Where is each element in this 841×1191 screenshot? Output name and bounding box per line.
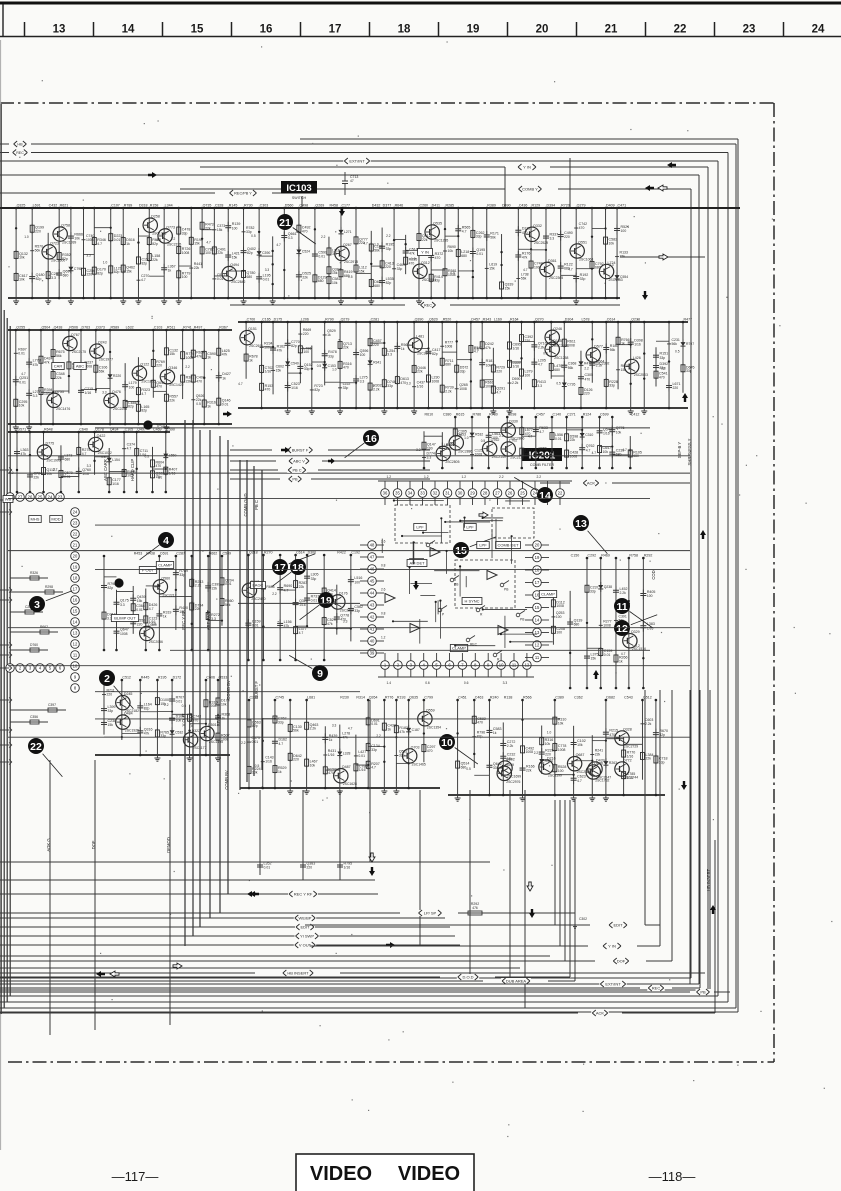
top row column 2	[24, 204, 44, 300]
svg-text:Q255: Q255	[16, 326, 25, 330]
svg-text:29: 29	[470, 491, 475, 496]
svg-text:Q773: Q773	[166, 225, 175, 229]
svg-text:L702: L702	[509, 439, 517, 443]
svg-text:PB C: PB C	[292, 468, 301, 473]
svg-text:56k: 56k	[490, 236, 496, 240]
svg-text:33p: 33p	[179, 573, 185, 577]
svg-text:0.5: 0.5	[466, 767, 471, 771]
svg-text:10k: 10k	[221, 702, 227, 706]
svg-text:C231: C231	[672, 338, 680, 342]
svg-text:C742: C742	[579, 222, 587, 226]
IC201 bottom pin row	[378, 653, 534, 685]
svg-text:100: 100	[205, 251, 211, 255]
svg-text:100: 100	[303, 350, 309, 354]
svg-text:ACK: ACK	[596, 1011, 605, 1016]
svg-text:2SC2729: 2SC2729	[624, 745, 638, 749]
center bottom block column 9	[356, 696, 380, 790]
svg-text:0.01: 0.01	[176, 700, 183, 704]
svg-text:R789: R789	[124, 204, 133, 208]
svg-text:470: 470	[659, 375, 665, 379]
callout 9	[289, 655, 328, 681]
svg-text:33p: 33p	[278, 720, 284, 724]
svg-text:2.2k: 2.2k	[310, 727, 317, 731]
wire BURST F	[230, 447, 430, 453]
svg-text:22k: 22k	[194, 266, 200, 270]
svg-text:C606: C606	[206, 676, 215, 680]
boxed label MHS	[29, 516, 41, 523]
svg-text:47k: 47k	[196, 354, 202, 358]
svg-text:220: 220	[584, 392, 590, 396]
svg-text:Q312: Q312	[421, 261, 430, 265]
svg-text:R730: R730	[244, 204, 253, 208]
svg-text:16: 16	[260, 24, 273, 36]
svg-text:21: 21	[73, 543, 78, 548]
svg-text:100: 100	[360, 353, 366, 357]
svg-text:1k: 1k	[493, 731, 497, 735]
svg-text:42: 42	[370, 615, 375, 620]
svg-text:R621: R621	[60, 204, 69, 208]
svg-text:3.3: 3.3	[288, 236, 293, 240]
svg-text:56k: 56k	[610, 348, 616, 352]
svg-text:220: 220	[156, 364, 162, 368]
svg-text:Q176: Q176	[339, 591, 348, 595]
svg-text:D457: D457	[471, 318, 480, 322]
svg-text:33p: 33p	[580, 277, 586, 281]
wire DUB AREA	[0, 978, 575, 984]
svg-text:1.4: 1.4	[387, 681, 392, 685]
top row column 37	[500, 204, 514, 300]
svg-text:100: 100	[232, 226, 238, 230]
svg-text:R145: R145	[229, 204, 238, 208]
svg-text:2SC1977: 2SC1977	[99, 358, 113, 362]
arrow 14	[369, 853, 375, 862]
right lower block column 4	[497, 696, 520, 797]
right lower block column 5	[519, 696, 534, 802]
svg-text:R133: R133	[620, 251, 628, 255]
svg-text:1k: 1k	[126, 242, 130, 246]
svg-text:2SC2503: 2SC2503	[634, 373, 648, 377]
boxed label AM DET	[407, 560, 427, 567]
left resistor R163	[10, 625, 58, 634]
svg-text:D318: D318	[139, 204, 148, 208]
svg-text:R138: R138	[504, 696, 513, 700]
svg-text:C292: C292	[587, 554, 596, 558]
svg-text:47k: 47k	[44, 361, 50, 365]
svg-text:1.2: 1.2	[387, 475, 392, 479]
svg-text:36: 36	[383, 491, 388, 496]
left block upper column 6	[87, 428, 112, 475]
svg-text:1k: 1k	[619, 659, 623, 663]
svg-text:Q758: Q758	[61, 224, 70, 228]
svg-text:4.7: 4.7	[348, 726, 353, 730]
svg-text:10: 10	[441, 737, 453, 749]
svg-text:1.0: 1.0	[24, 235, 29, 239]
center-left block column 8	[337, 551, 363, 642]
svg-text:D590: D590	[512, 377, 520, 381]
svg-text:L578: L578	[581, 318, 589, 322]
svg-text:2.2: 2.2	[185, 365, 190, 369]
boxed label Y IN	[418, 249, 433, 256]
left resistor R161	[10, 585, 63, 594]
svg-text:33: 33	[420, 491, 425, 496]
left band column 2	[21, 329, 40, 431]
svg-text:680: 680	[574, 623, 580, 627]
svg-text:IC103: IC103	[286, 183, 311, 194]
svg-text:1/16: 1/16	[647, 626, 654, 630]
svg-text:10k: 10k	[310, 763, 316, 767]
top row column 32	[425, 204, 448, 300]
riser x570	[569, 158, 571, 208]
svg-text:0.5: 0.5	[675, 350, 680, 354]
svg-text:1008: 1008	[556, 604, 564, 608]
left band column 11	[151, 326, 165, 398]
left block mid column 5	[146, 552, 177, 652]
svg-text:48: 48	[370, 543, 375, 548]
svg-text:2.2: 2.2	[164, 703, 169, 707]
svg-text:Q122: Q122	[140, 363, 149, 367]
svg-text:19: 19	[320, 595, 332, 607]
svg-text:ABC V: ABC V	[293, 459, 305, 464]
wire ACK mid	[540, 480, 690, 486]
top row column 18	[228, 204, 256, 305]
svg-text:L344: L344	[165, 204, 173, 208]
svg-text:D432: D432	[372, 204, 381, 208]
svg-text:15k: 15k	[137, 599, 143, 603]
svg-text:15k: 15k	[194, 242, 200, 246]
svg-text:D577: D577	[594, 344, 603, 348]
svg-text:R453: R453	[134, 552, 143, 556]
svg-text:R615: R615	[456, 413, 465, 417]
svg-text:1008: 1008	[445, 344, 453, 348]
left resistor R165	[10, 703, 66, 712]
svg-text:Q560: Q560	[161, 576, 170, 580]
svg-text:3.3: 3.3	[503, 681, 508, 685]
svg-text:3.3: 3.3	[87, 464, 92, 468]
svg-text:47k: 47k	[33, 363, 39, 367]
svg-text:56k: 56k	[99, 370, 105, 374]
wire rail bottom of left band	[8, 423, 232, 425]
svg-text:19: 19	[467, 24, 480, 36]
svg-text:1k: 1k	[222, 716, 226, 720]
svg-text:REC: REC	[470, 643, 478, 647]
svg-text:33p: 33p	[609, 384, 615, 388]
svg-text:R341: R341	[373, 360, 381, 364]
wire D.O.D	[0, 974, 570, 980]
svg-text:4.7: 4.7	[496, 390, 501, 394]
svg-text:15k: 15k	[505, 286, 511, 290]
svg-text:0.01: 0.01	[358, 754, 365, 758]
svg-text:C287: C287	[176, 552, 185, 556]
svg-text:R367: R367	[219, 326, 228, 330]
svg-text:82p: 82p	[152, 242, 158, 246]
svg-text:C107: C107	[111, 204, 120, 208]
svg-text:L169: L169	[494, 318, 502, 322]
svg-text:DOF: DOF	[617, 959, 626, 964]
mid cluster column 5	[481, 413, 506, 470]
bottom-left rail 2	[0, 861, 490, 863]
left block upper column 8	[109, 428, 136, 494]
svg-text:Y IN: Y IN	[523, 165, 531, 170]
svg-text:14: 14	[73, 620, 78, 625]
svg-text:28: 28	[483, 491, 488, 496]
svg-text:C603: C603	[645, 718, 653, 722]
svg-text:REC: REC	[16, 151, 24, 155]
right mid block column 6	[616, 554, 646, 690]
top row column 33	[431, 204, 456, 300]
svg-text:0.5: 0.5	[543, 351, 548, 355]
svg-text:1/16: 1/16	[359, 768, 366, 772]
svg-text:1k: 1k	[401, 347, 405, 351]
svg-text:Q279: Q279	[577, 204, 586, 208]
svg-text:1.2: 1.2	[462, 475, 467, 479]
svg-text:680: 680	[554, 368, 560, 372]
svg-text:LPF: LPF	[479, 542, 487, 547]
band2 column 17	[457, 318, 483, 410]
callout 14	[514, 477, 553, 503]
svg-text:476: 476	[472, 906, 478, 910]
svg-text:2SC1199: 2SC1199	[548, 774, 562, 778]
svg-text:BURST F: BURST F	[292, 448, 309, 453]
svg-text:680: 680	[374, 284, 380, 288]
svg-text:470: 470	[156, 385, 162, 389]
left edge bus wires	[1, 104, 10, 1014]
svg-text:D394: D394	[546, 204, 555, 208]
svg-text:0.5: 0.5	[251, 234, 256, 238]
callout 18	[272, 559, 306, 587]
svg-text:1008: 1008	[431, 379, 439, 383]
svg-text:Q476: Q476	[112, 390, 121, 394]
svg-text:0.5: 0.5	[474, 347, 479, 351]
top row column 38	[515, 204, 530, 300]
svg-text:R697: R697	[18, 347, 26, 351]
svg-text:2SC2195: 2SC2195	[167, 242, 181, 246]
band2 column 8	[325, 318, 352, 415]
svg-text:HB: HB	[17, 143, 23, 147]
svg-text:16: 16	[365, 433, 377, 445]
callout 12	[614, 615, 657, 636]
dash-dot frame right	[773, 103, 775, 1062]
svg-text:Q526: Q526	[196, 394, 205, 398]
grid column tick 18	[369, 22, 371, 37]
svg-text:33p: 33p	[686, 369, 692, 373]
svg-text:R314: R314	[356, 696, 365, 700]
svg-text:1/16: 1/16	[291, 386, 298, 390]
left resistor R164	[10, 643, 48, 652]
svg-text:4.7: 4.7	[156, 238, 161, 242]
svg-text:Q487: Q487	[342, 765, 351, 769]
grid column tick 17	[300, 22, 302, 37]
center bottom block column 8	[348, 696, 368, 790]
svg-text:REC: REC	[424, 304, 432, 308]
IC201 label box	[522, 448, 562, 467]
svg-text:1008: 1008	[603, 623, 611, 627]
svg-text:27: 27	[495, 491, 500, 496]
svg-text:4.7: 4.7	[141, 278, 146, 282]
svg-text:DUB AREA: DUB AREA	[506, 979, 527, 984]
boxed label COMB DET	[496, 542, 521, 549]
svg-text:4.7: 4.7	[206, 241, 211, 245]
wire REC mid	[230, 302, 620, 308]
svg-text:11: 11	[616, 601, 627, 613]
svg-text:680: 680	[63, 274, 69, 278]
svg-text:22: 22	[558, 491, 563, 496]
arrow 10	[173, 963, 182, 969]
wire PB	[230, 476, 430, 482]
band2 column 20	[506, 318, 521, 415]
svg-text:R277: R277	[603, 619, 611, 623]
top row column 30	[394, 235, 418, 274]
right lower block column 8	[555, 696, 591, 802]
svg-text:R326: R326	[30, 571, 38, 575]
svg-text:R723: R723	[314, 384, 322, 388]
left block upper column 10	[145, 428, 165, 494]
riser x505	[504, 167, 506, 208]
center bottom block column 4	[287, 699, 302, 795]
svg-text:0.6: 0.6	[425, 681, 430, 685]
left edge wire stubs	[0, 468, 12, 765]
IC101 bottom pin row	[6, 664, 65, 673]
grid column tick 22	[645, 22, 647, 37]
svg-text:0.01: 0.01	[264, 866, 271, 870]
svg-text:2.2k: 2.2k	[507, 744, 514, 748]
right lower block column 10	[592, 696, 618, 802]
callout 11	[614, 598, 653, 628]
svg-text:4.7: 4.7	[622, 448, 627, 452]
svg-text:ACK: ACK	[587, 481, 596, 486]
svg-text:PB: PB	[292, 477, 298, 482]
svg-text:1008: 1008	[558, 748, 566, 752]
right lower block column 7	[547, 696, 567, 797]
svg-text:1008: 1008	[570, 454, 578, 458]
wire EDIT right	[305, 922, 660, 928]
svg-text:0.5: 0.5	[481, 439, 486, 443]
svg-text:SWITCH: SWITCH	[292, 196, 307, 200]
svg-text:4: 4	[163, 535, 169, 547]
svg-text:R589: R589	[111, 326, 120, 330]
svg-text:56k: 56k	[672, 342, 678, 346]
svg-text:3.3: 3.3	[343, 620, 348, 624]
right mid block column 7	[635, 554, 655, 690]
svg-text:C281: C281	[371, 318, 380, 322]
IC101 top pin row	[6, 493, 65, 502]
svg-text:3.3: 3.3	[332, 723, 337, 727]
left resistor R160	[10, 571, 48, 580]
wire HB	[0, 141, 736, 1008]
left band column 12	[153, 326, 183, 431]
top row column 26	[348, 207, 368, 300]
svg-text:14: 14	[535, 618, 540, 623]
svg-text:33p: 33p	[476, 235, 482, 239]
svg-text:22: 22	[30, 741, 42, 753]
svg-text:220: 220	[107, 693, 113, 697]
svg-text:CLAMP: CLAMP	[158, 562, 172, 567]
band2 column 25	[578, 318, 593, 410]
svg-text:BLIMP OUT: BLIMP OUT	[114, 615, 136, 620]
svg-text:C451: C451	[458, 696, 467, 700]
svg-text:33p: 33p	[304, 367, 310, 371]
svg-text:Q279: Q279	[341, 318, 350, 322]
svg-text:4.7: 4.7	[278, 742, 283, 746]
svg-text:0.6: 0.6	[464, 681, 469, 685]
svg-text:R241: R241	[595, 749, 603, 753]
svg-text:R662: R662	[40, 625, 48, 629]
svg-text:C380: C380	[443, 413, 452, 417]
band2 column 6	[300, 346, 322, 415]
arrow 9	[110, 971, 119, 977]
svg-text:R422: R422	[337, 551, 346, 555]
svg-text:56k: 56k	[568, 366, 574, 370]
svg-text:3.3: 3.3	[265, 268, 270, 272]
arrow 21	[700, 530, 706, 539]
top row column 13	[171, 207, 191, 305]
op-amp triangle 4	[498, 626, 508, 635]
svg-text:12: 12	[73, 642, 78, 647]
band2 column 3	[262, 318, 286, 395]
svg-text:1k: 1k	[387, 727, 391, 731]
svg-text:REC: REC	[652, 986, 661, 991]
svg-text:220: 220	[673, 386, 679, 390]
svg-text:680: 680	[445, 363, 451, 367]
svg-text:470: 470	[302, 229, 308, 233]
wire y161	[0, 160, 718, 162]
svg-text:Q328: Q328	[623, 728, 632, 732]
svg-text:1.2: 1.2	[381, 636, 386, 640]
svg-text:15k: 15k	[276, 368, 282, 372]
svg-text:19: 19	[535, 555, 540, 560]
svg-text:C310: C310	[585, 433, 593, 437]
svg-text:C745: C745	[275, 696, 284, 700]
svg-text:220: 220	[86, 273, 92, 277]
left block mid column 1	[101, 555, 116, 652]
left block upper column 11	[152, 428, 177, 494]
svg-text:82p: 82p	[97, 271, 103, 275]
svg-text:Q270: Q270	[535, 318, 544, 322]
svg-text:R285: R285	[445, 204, 454, 208]
right lower block column 3	[474, 696, 501, 797]
wire rail bottom of center bottom block	[240, 787, 440, 789]
op-amp triangle 1	[430, 548, 440, 557]
grid column tick 23	[714, 22, 716, 37]
svg-text:D304: D304	[565, 318, 574, 322]
callout 15	[453, 537, 496, 558]
svg-text:C389: C389	[555, 696, 564, 700]
callout 16	[345, 430, 379, 458]
svg-text:56k: 56k	[374, 248, 380, 252]
svg-text:C150: C150	[571, 554, 580, 558]
transistor Q211	[588, 759, 611, 780]
svg-text:1/16: 1/16	[512, 365, 519, 369]
svg-text:10k: 10k	[558, 721, 564, 725]
svg-text:D172: D172	[173, 676, 182, 680]
svg-text:0.01: 0.01	[318, 255, 325, 259]
wire REC Y RF	[0, 891, 378, 897]
svg-text:1k: 1k	[327, 333, 331, 337]
svg-text:Q233: Q233	[631, 318, 640, 322]
svg-text:Q218: Q218	[249, 551, 258, 555]
svg-text:LPF: LPF	[466, 524, 474, 529]
IC201 internal wires	[382, 499, 553, 648]
svg-text:1k: 1k	[163, 615, 167, 619]
svg-text:2.6: 2.6	[381, 540, 386, 544]
svg-text:22k: 22k	[343, 346, 349, 350]
svg-text:D258: D258	[151, 215, 160, 219]
svg-text:R164: R164	[510, 318, 519, 322]
svg-text:15k: 15k	[620, 255, 626, 259]
svg-text:MOD: MOD	[51, 516, 60, 521]
svg-text:D.O.D: D.O.D	[462, 975, 473, 980]
svg-text:0.01: 0.01	[252, 624, 259, 628]
svg-text:15: 15	[191, 24, 204, 36]
